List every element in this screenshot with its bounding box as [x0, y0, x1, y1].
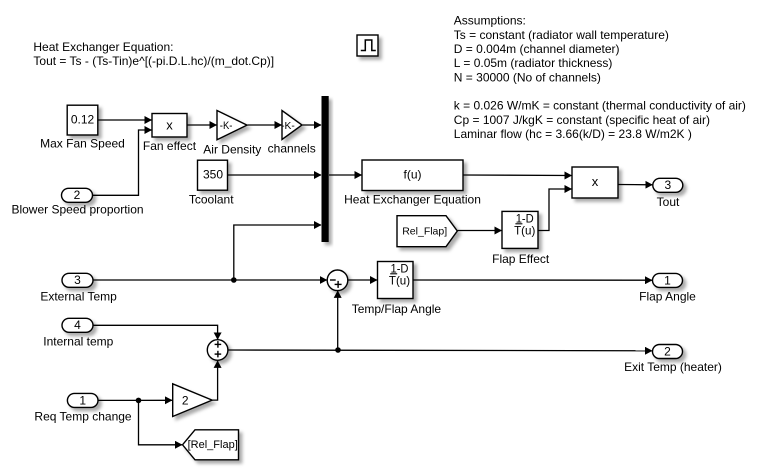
svg-text:Tout: Tout [657, 195, 680, 209]
svg-text:External Temp: External Temp [40, 289, 117, 303]
svg-text:Tout = Ts - (Ts-Tin)e^[(-pi.D.: Tout = Ts - (Ts-Tin)e^[(-pi.D.L.hc)/(m_d… [33, 54, 274, 68]
svg-text:Flap Angle: Flap Angle [639, 289, 696, 303]
svg-text:x: x [592, 174, 599, 189]
svg-text:f(u): f(u) [404, 168, 422, 182]
svg-text:Temp/Flap Angle: Temp/Flap Angle [352, 302, 442, 316]
svg-text:Cp = 1007 J/kgK = constant (sp: Cp = 1007 J/kgK = constant (specific hea… [454, 113, 710, 127]
svg-text:T(u): T(u) [514, 223, 535, 237]
svg-text:channels: channels [268, 141, 316, 155]
svg-text:3: 3 [664, 178, 671, 192]
svg-text:1: 1 [79, 393, 86, 407]
svg-text:Max Fan Speed: Max Fan Speed [40, 136, 125, 150]
svg-text:Heat Exchanger Equation:: Heat Exchanger Equation: [33, 40, 173, 54]
svg-text:Ts = constant (radiator wall t: Ts = constant (radiator wall temperature… [454, 28, 669, 42]
svg-text:-K-: -K- [281, 120, 295, 132]
svg-text:-K-: -K- [220, 120, 233, 132]
svg-text:Blower Speed proportion: Blower Speed proportion [11, 202, 143, 216]
svg-text:x: x [166, 118, 173, 133]
svg-text:2: 2 [664, 344, 671, 358]
svg-text:0.12: 0.12 [71, 113, 95, 127]
svg-text:2: 2 [74, 188, 81, 202]
svg-text:Air Density: Air Density [203, 142, 261, 156]
svg-text:350: 350 [203, 167, 223, 181]
svg-text:L = 0.05m (radiator thickness): L = 0.05m (radiator thickness) [454, 56, 613, 70]
svg-text:Assumptions:: Assumptions: [454, 14, 526, 28]
svg-text:Flap Effect: Flap Effect [492, 252, 550, 266]
svg-text:Tcoolant: Tcoolant [189, 192, 234, 206]
svg-text:Req Temp change: Req Temp change [34, 410, 132, 424]
svg-text:Rel_Flap]: Rel_Flap] [402, 226, 447, 238]
svg-text:T(u): T(u) [389, 273, 410, 287]
svg-text:Internal temp: Internal temp [43, 335, 113, 349]
svg-text:2: 2 [182, 394, 189, 408]
svg-text:k = 0.026 W/mK = constant (the: k = 0.026 W/mK = constant (thermal condu… [454, 99, 746, 113]
svg-text:1: 1 [664, 273, 671, 287]
svg-text:4: 4 [74, 318, 81, 332]
svg-text:Heat Exchanger Equation: Heat Exchanger Equation [344, 193, 481, 207]
svg-text:3: 3 [74, 273, 81, 287]
svg-text:[Rel_Flap]: [Rel_Flap] [188, 439, 238, 451]
svg-text:D = 0.004m (channel diameter): D = 0.004m (channel diameter) [454, 42, 620, 56]
svg-text:N = 30000 (No of channels): N = 30000 (No of channels) [454, 70, 601, 84]
svg-text:Exit Temp (heater): Exit Temp (heater) [624, 360, 722, 374]
svg-text:Fan effect: Fan effect [143, 139, 197, 153]
svg-text:Laminar flow (hc = 3.66(k/D) =: Laminar flow (hc = 3.66(k/D) = 23.8 W/m2… [454, 127, 692, 141]
